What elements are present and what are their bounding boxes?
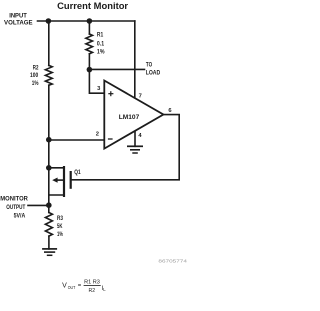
svg-text:INPUT: INPUT bbox=[9, 14, 27, 20]
svg-text:OUT: OUT bbox=[68, 285, 76, 290]
svg-text:Q1: Q1 bbox=[74, 170, 81, 176]
svg-text:0.1: 0.1 bbox=[97, 41, 105, 47]
svg-text:7: 7 bbox=[139, 94, 142, 100]
svg-text:1%: 1% bbox=[32, 81, 39, 87]
svg-text:1%: 1% bbox=[57, 232, 63, 238]
svg-text:R2: R2 bbox=[89, 288, 96, 294]
svg-text:LOAD: LOAD bbox=[146, 71, 161, 77]
svg-text:R1 R3: R1 R3 bbox=[84, 280, 100, 286]
svg-text:MONITOR: MONITOR bbox=[0, 197, 28, 203]
svg-text:VOLTAGE: VOLTAGE bbox=[4, 20, 33, 26]
svg-text:Current Monitor: Current Monitor bbox=[57, 0, 128, 11]
svg-text:5K: 5K bbox=[57, 224, 63, 230]
svg-text:100: 100 bbox=[30, 73, 39, 79]
svg-text:R2: R2 bbox=[33, 66, 39, 72]
svg-text:2: 2 bbox=[96, 131, 99, 137]
svg-text:TO: TO bbox=[146, 63, 152, 69]
svg-text:R1: R1 bbox=[97, 33, 104, 39]
svg-text:OUTPUT: OUTPUT bbox=[6, 205, 25, 211]
svg-text:=: = bbox=[78, 283, 82, 289]
svg-text:1%: 1% bbox=[97, 49, 105, 55]
svg-text:86705774: 86705774 bbox=[158, 258, 187, 264]
svg-text:V: V bbox=[62, 283, 67, 290]
svg-text:R3: R3 bbox=[57, 216, 64, 222]
svg-text:LM107: LM107 bbox=[119, 115, 140, 121]
svg-text:5V/A: 5V/A bbox=[14, 214, 26, 220]
